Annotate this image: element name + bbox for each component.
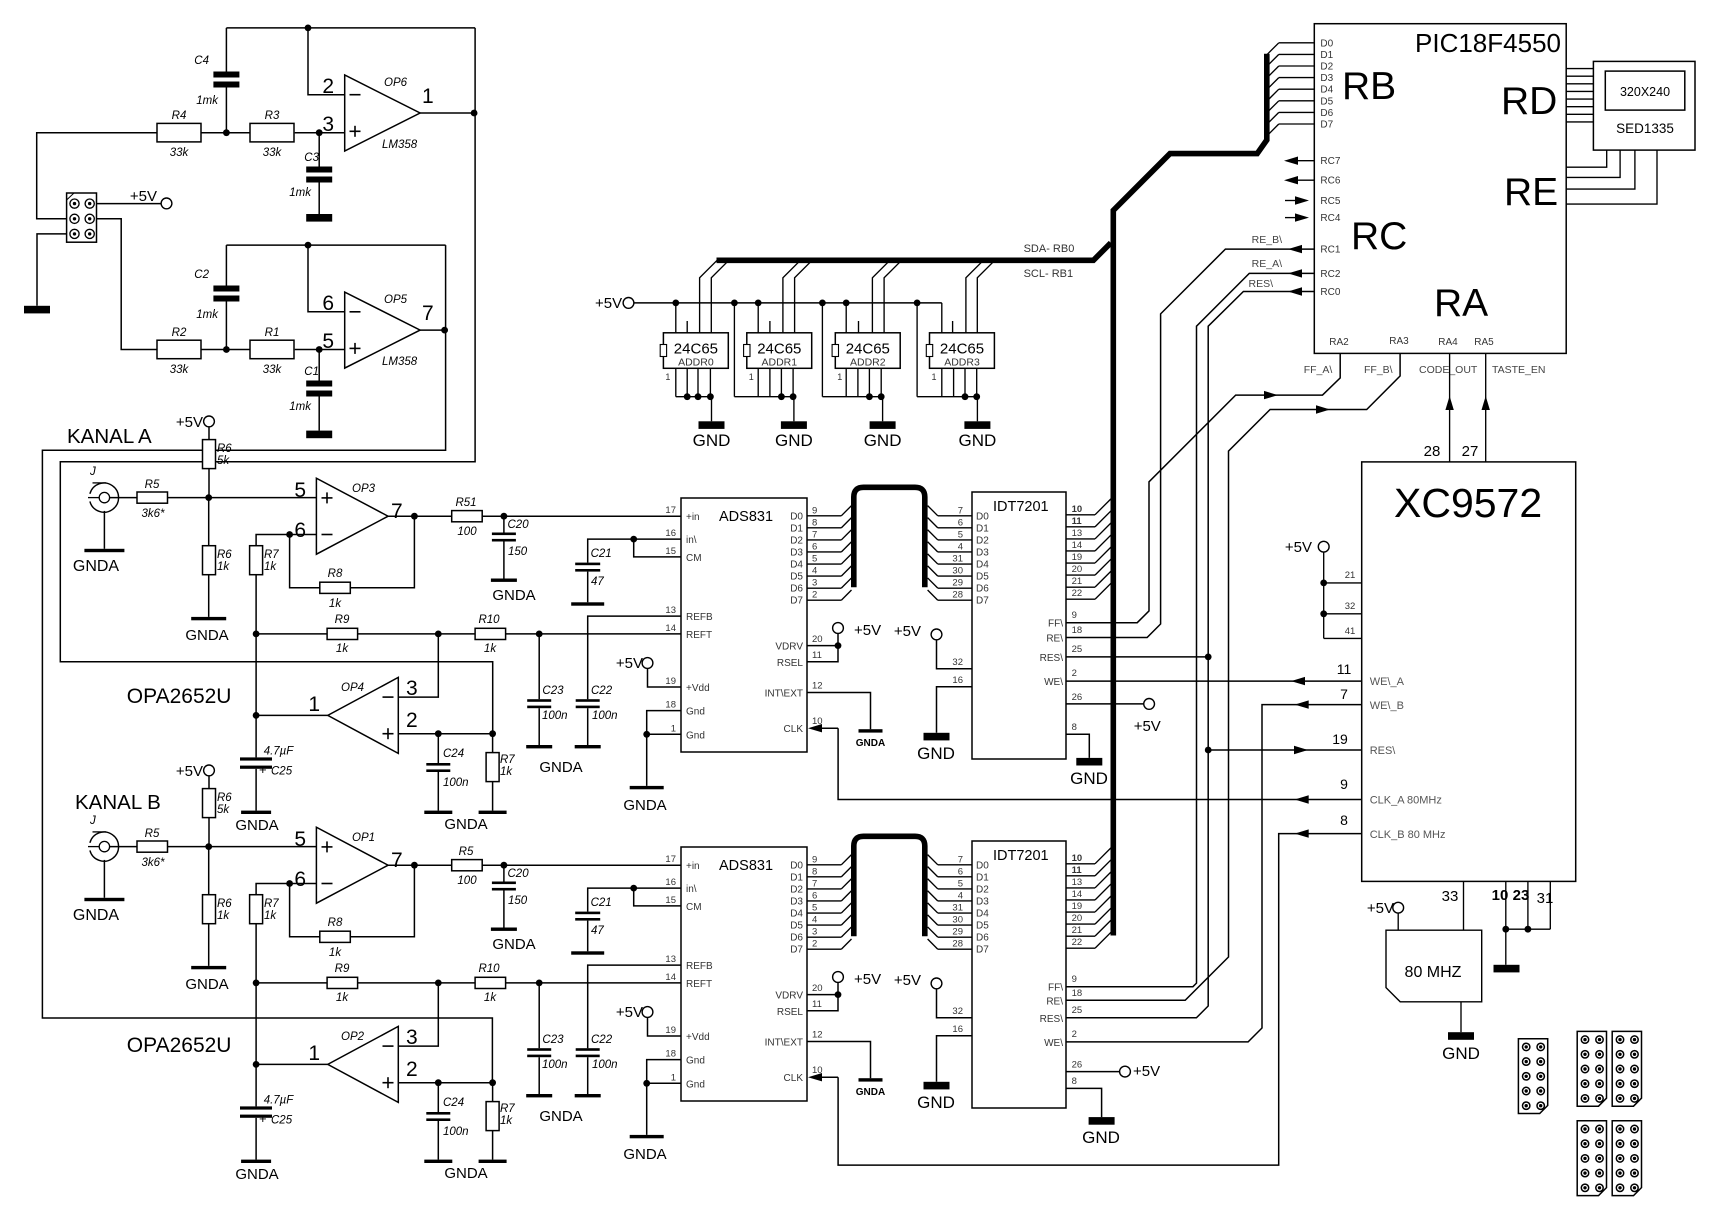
svg-text:47: 47 [591, 576, 604, 588]
wire C24 to ground (A) [437, 772, 439, 811]
svg-text:5: 5 [958, 529, 963, 540]
svg-text:1k: 1k [217, 561, 230, 573]
capacitor C25 4.7uF (A) [240, 757, 272, 760]
svg-text:R5: R5 [145, 828, 160, 840]
svg-text:GNDA: GNDA [185, 976, 228, 993]
svg-text:1mk: 1mk [196, 95, 219, 107]
svg-text:9: 9 [812, 854, 817, 865]
capacitor C20 (B) [492, 882, 516, 885]
resistor R9 (B) [327, 977, 358, 988]
svg-text:R5: R5 [459, 846, 474, 858]
wire C23 to ground (A) [538, 708, 540, 745]
svg-text:1k: 1k [500, 766, 513, 778]
svg-text:21: 21 [1072, 925, 1083, 936]
svg-text:1: 1 [308, 693, 320, 716]
junction RES at XC19 [1205, 747, 1212, 754]
svg-text:OPA2652U: OPA2652U [127, 1034, 232, 1057]
svg-text:25: 25 [1072, 644, 1083, 655]
wire C3 from node 3 [318, 133, 320, 167]
svg-text:+in: +in [686, 861, 700, 872]
svg-text:2: 2 [322, 75, 334, 98]
wire to C24 (A) [437, 734, 439, 763]
svg-text:R4: R4 [172, 110, 187, 122]
svg-text:4: 4 [958, 890, 963, 901]
wire IDT pin32 (B) [937, 989, 973, 1018]
resistor R5 3k6 (A) [137, 492, 168, 503]
svg-text:REFB: REFB [686, 961, 713, 972]
svg-text:GND: GND [959, 431, 997, 450]
svg-text:GNDA: GNDA [856, 738, 885, 749]
resistor R6 5k (A) [203, 440, 216, 469]
svg-text:+Vdd: +Vdd [686, 683, 710, 694]
wire node to R6 1k (B) [208, 847, 210, 895]
resistor R51 100 (A) [452, 511, 483, 522]
svg-text:+5V: +5V [616, 655, 643, 672]
svg-text:1k: 1k [500, 1115, 513, 1127]
wire R9/R10 reference rail (B) [256, 982, 681, 984]
wire header to R2 input [90, 219, 157, 350]
analog ground bar below C21 (B) [571, 951, 604, 954]
svg-text:+5V: +5V [1134, 718, 1161, 735]
svg-text:3k6*: 3k6* [141, 508, 165, 520]
power +5V top-left header [161, 198, 172, 209]
svg-text:IDT7201: IDT7201 [993, 848, 1049, 864]
svg-text:C23: C23 [542, 685, 564, 697]
power +5V for ADS +Vdd (A) [642, 658, 653, 669]
wire oscillator to GND [1460, 1002, 1462, 1032]
svg-text:GND: GND [1442, 1044, 1480, 1063]
ground bar below C1 [306, 431, 332, 439]
svg-text:C21: C21 [591, 897, 612, 909]
svg-text:D7: D7 [790, 596, 803, 607]
svg-text:D4: D4 [790, 909, 803, 920]
wire RES net: RC0 to FIFOs and XC [1066, 292, 1314, 1018]
svg-text:9: 9 [1340, 776, 1348, 792]
capacitor C25 4.7uF (B) [240, 1106, 272, 1109]
svg-text:33: 33 [1442, 888, 1459, 905]
svg-text:GNDA: GNDA [444, 816, 487, 833]
wire RA5 to XC pin 27 [1485, 353, 1487, 462]
wire C25 to ground (B) [255, 1118, 257, 1160]
svg-text:OPA2652U: OPA2652U [127, 685, 232, 708]
svg-text:10: 10 [812, 716, 823, 727]
svg-text:6: 6 [812, 890, 817, 901]
wire INT-EXT to GNDA (B) [807, 1042, 871, 1079]
resistor R5 100 (B) [452, 860, 483, 871]
wire C25 to ground (A) [255, 769, 257, 811]
svg-text:C22: C22 [591, 1034, 613, 1046]
svg-text:RD: RD [1501, 80, 1557, 123]
wire SDA of 24C65 #4 to bus [966, 260, 984, 333]
wires 24C65 #1 bottom pins [675, 368, 677, 396]
IC ADS831 (B) [681, 847, 807, 1101]
svg-text:OP3: OP3 [352, 483, 376, 495]
power +5V IDT-A pin 26 [1066, 703, 1144, 705]
svg-text:GNDA: GNDA [235, 817, 278, 834]
svg-text:1k: 1k [217, 910, 230, 922]
svg-text:5: 5 [294, 828, 306, 851]
svg-text:13: 13 [665, 954, 676, 965]
resistor R6 5k (B) [203, 789, 216, 818]
wire R51 to ADS +in (A) [482, 515, 681, 517]
wire BNC to R5 (B) [110, 846, 137, 848]
svg-text:CM: CM [686, 553, 702, 564]
analog ground bar below ADS (A) [630, 786, 664, 789]
svg-text:18: 18 [1072, 988, 1083, 999]
svg-text:GNDA: GNDA [539, 1108, 582, 1125]
wire ADS in-inv to C21 (B) [588, 888, 681, 912]
wire OP2 - input [398, 983, 438, 1046]
wire OP4 - input [398, 634, 438, 697]
ground bar below C3 [306, 214, 332, 222]
svg-text:8: 8 [812, 517, 817, 528]
wire +5V to R6 5k (B) [208, 776, 210, 789]
wire OP2 output node vertical [255, 983, 257, 1107]
wire RE_A net: IDT-B FF to PIC RC2 [1066, 273, 1314, 986]
svg-text:VDRV: VDRV [775, 642, 803, 653]
svg-text:R3: R3 [265, 110, 280, 122]
svg-text:2: 2 [406, 1058, 418, 1081]
wire CLK_A: ADS-A CLK to XC pin 9 [838, 728, 1362, 799]
analog ground bar below C22 (A) [575, 745, 601, 748]
data bus ADS to IDT (B) [854, 836, 925, 936]
stub pin on 24C65 #1 top [686, 321, 688, 333]
stub pin on 24C65 #4 top [952, 321, 954, 333]
svg-text:16: 16 [952, 675, 963, 686]
junction XC pin 23 gnd [1525, 926, 1532, 933]
svg-text:1k: 1k [329, 598, 342, 610]
wire C2 to top rail [225, 245, 227, 285]
IC ADS831 (A) [681, 498, 807, 752]
resistor R6 1k (A) [203, 546, 216, 575]
svg-text:RE: RE [1504, 171, 1558, 214]
svg-text:32: 32 [1345, 601, 1356, 612]
ground bar below header [24, 306, 50, 314]
wire R5 to op-amp + (A) [168, 497, 317, 499]
svg-text:27: 27 [1462, 443, 1479, 460]
wire +5V into 24C65 #4 [941, 303, 943, 333]
wire ADS Gnd pins to ground (B) [647, 1060, 681, 1135]
svg-text:CODE_OUT: CODE_OUT [1419, 364, 1478, 376]
wire R7 top to inverting node (B) [256, 884, 290, 895]
svg-text:INT\EXT: INT\EXT [765, 1038, 803, 1049]
svg-text:OP1: OP1 [352, 832, 375, 844]
svg-text:14: 14 [665, 623, 676, 634]
wire R5 to ADS +in (B) [482, 864, 681, 866]
capacitor C1 [306, 381, 332, 387]
svg-text:1k: 1k [264, 910, 277, 922]
resistor R7 1k (A) [250, 546, 263, 575]
capacitor C4 [213, 72, 239, 78]
svg-text:8: 8 [1072, 1076, 1077, 1087]
wire R6 1k to ground (B) [208, 924, 210, 966]
svg-text:6: 6 [322, 292, 334, 315]
wire SDA of 24C65 #3 to bus [872, 260, 890, 333]
svg-text:R8: R8 [328, 568, 343, 580]
svg-text:21: 21 [1072, 576, 1083, 587]
svg-text:6: 6 [958, 866, 963, 877]
capacitor C22 (B) [576, 1048, 600, 1051]
svg-text:150: 150 [508, 895, 528, 907]
svg-text:RES\: RES\ [1040, 1014, 1064, 1025]
resistor R9 (A) [327, 628, 358, 639]
svg-text:1: 1 [671, 1072, 676, 1083]
svg-text:4: 4 [812, 566, 817, 577]
svg-text:RC2: RC2 [1320, 269, 1340, 280]
svg-text:C4: C4 [194, 55, 209, 67]
power +5V for IDT pin32 (A) [931, 629, 942, 640]
connector header 2x5 #4 [1577, 1121, 1606, 1196]
resistor R10 (B) [475, 977, 506, 988]
wire RSEL (B) [807, 995, 838, 1011]
svg-text:REFT: REFT [686, 630, 712, 641]
junction OP6 output [471, 110, 478, 117]
connector header 2x5 #2 [1577, 1031, 1606, 1106]
capacitor C21 (A) [575, 563, 600, 566]
wire feedback left (B) [290, 884, 320, 937]
svg-text:18: 18 [665, 1049, 676, 1060]
svg-text:ADDR2: ADDR2 [850, 357, 886, 369]
svg-text:R10: R10 [478, 614, 500, 626]
svg-text:6: 6 [294, 868, 306, 891]
junction R4/R3/C4 node [223, 129, 230, 136]
resistor R4 [157, 123, 201, 141]
svg-text:D7: D7 [790, 945, 803, 956]
svg-text:GNDA: GNDA [444, 1165, 487, 1182]
svg-text:7: 7 [958, 505, 963, 516]
wire OP3 output [388, 515, 452, 517]
svg-text:3k6*: 3k6* [141, 857, 165, 869]
wire SCL of 24C65 #2 to bus [795, 260, 813, 333]
junction on OP6 top rail [305, 25, 312, 32]
wire OP4 output node vertical [255, 634, 257, 758]
capacitor C22 (A) [576, 699, 600, 702]
svg-text:RB: RB [1342, 65, 1396, 108]
wire CLK pin (B) [808, 1073, 822, 1081]
svg-text:D0: D0 [976, 860, 989, 871]
wire OP2 output [256, 1063, 328, 1065]
ground bar IDT pin16 (B) [924, 1082, 950, 1090]
ground bar oscillator [1448, 1032, 1474, 1040]
svg-text:6: 6 [958, 517, 963, 528]
junction R2/R1/C2 node [223, 346, 230, 353]
wire C3 to ground [318, 183, 320, 215]
svg-text:OP5: OP5 [384, 294, 408, 306]
wire 24C65 #1 to GND [711, 397, 713, 422]
svg-text:TASTE_EN: TASTE_EN [1492, 364, 1545, 376]
wire SCL of 24C65 #3 to bus [884, 260, 902, 333]
svg-text:+5V: +5V [1367, 900, 1394, 917]
svg-text:D5: D5 [1320, 96, 1333, 107]
svg-text:4: 4 [958, 541, 963, 552]
svg-text:J: J [89, 466, 96, 478]
junction XC pin 10 gnd [1502, 926, 1509, 933]
svg-text:15: 15 [665, 895, 676, 906]
analog ground bar below C21 (A) [571, 602, 604, 605]
svg-text:D1: D1 [1320, 50, 1333, 61]
svg-text:R6: R6 [217, 898, 232, 910]
wire OP6 top feedback rail [226, 27, 475, 29]
svg-text:D3: D3 [790, 547, 803, 558]
wire feedback left (A) [290, 535, 320, 588]
wire header pin to ground [37, 234, 75, 306]
IC IDT7201 (B) [972, 841, 1066, 1108]
svg-text:11: 11 [1337, 661, 1352, 677]
svg-text:J: J [89, 815, 96, 827]
capacitor C23 (A) [527, 699, 551, 702]
svg-text:14: 14 [1072, 540, 1083, 551]
svg-text:2: 2 [1072, 668, 1077, 679]
resistor R5 3k6 (B) [137, 841, 168, 852]
svg-text:+5V: +5V [130, 188, 157, 205]
wire R5 to op-amp + (B) [168, 846, 317, 848]
svg-text:R7: R7 [500, 754, 515, 766]
resistor R8 (A) [320, 582, 351, 593]
svg-text:R6: R6 [217, 792, 232, 804]
svg-text:RA5: RA5 [1474, 337, 1494, 348]
svg-text:7: 7 [422, 302, 434, 325]
analog ground bar below C23 (B) [526, 1094, 552, 1097]
svg-text:19: 19 [665, 676, 676, 687]
junction on OP5 top rail [305, 242, 312, 249]
svg-text:SCL- RB1: SCL- RB1 [1024, 268, 1074, 280]
svg-text:25: 25 [1072, 1005, 1083, 1016]
svg-text:24C65: 24C65 [757, 341, 801, 358]
svg-text:17: 17 [665, 505, 676, 516]
analog ground bar INT-EXT (B) [859, 1078, 883, 1081]
svg-text:41: 41 [1345, 626, 1356, 637]
connector header 2x5 #5 [1612, 1121, 1641, 1196]
svg-text:15: 15 [665, 546, 676, 557]
svg-text:ADDR3: ADDR3 [944, 357, 980, 369]
wires 24C65 #2 bottom pins [757, 368, 759, 396]
svg-text:GNDA: GNDA [73, 558, 120, 575]
svg-text:ADDR0: ADDR0 [678, 357, 714, 369]
svg-text:28: 28 [1424, 443, 1441, 460]
wire to C20 (B) [503, 865, 505, 881]
junction OP2 output [253, 1061, 260, 1068]
svg-text:+: + [259, 1111, 267, 1126]
power +5V XC left [1318, 541, 1329, 552]
svg-text:20: 20 [812, 634, 823, 645]
wires PIC RE to display [1566, 150, 1607, 167]
analog ground bar below R7b (B) [479, 1160, 507, 1163]
svg-text:ADS831: ADS831 [719, 509, 773, 525]
wire C4 to R4/R3 node [225, 88, 227, 133]
analog ground bar INT-EXT (A) [859, 729, 883, 732]
junction XC pin 21 [1320, 580, 1327, 587]
junction R3/C3 node 3 [316, 129, 323, 136]
svg-text:C23: C23 [542, 1034, 564, 1046]
wire +5V to oscillator [1397, 913, 1399, 930]
SDA/SCL bus (thick) [717, 243, 1111, 260]
svg-text:XC9572: XC9572 [1394, 480, 1542, 526]
wire REFB to C22 (B) [588, 965, 681, 1048]
svg-text:30: 30 [952, 566, 963, 577]
junction OP5 output [441, 327, 448, 334]
IC 24C65 #1 ADDR0 [663, 333, 728, 369]
svg-text:RE\: RE\ [1046, 996, 1063, 1007]
junction XC pin 32 [1320, 610, 1327, 617]
wire +5V to header pin [90, 203, 161, 205]
power +5V for VDRV (B) [833, 972, 844, 983]
wires IDT Q0-Q7 to main bus (A) [1066, 514, 1095, 516]
svg-text:R7: R7 [264, 898, 279, 910]
ground bar 24C65 #4 [964, 421, 990, 429]
wire R2 to R1 [201, 349, 250, 351]
svg-text:WE\: WE\ [1044, 677, 1063, 688]
svg-text:WE\_B: WE\_B [1370, 700, 1404, 712]
svg-text:320X240: 320X240 [1620, 85, 1670, 99]
svg-text:1: 1 [749, 372, 754, 382]
svg-text:10: 10 [1072, 853, 1083, 864]
capacitor C20 (A) [492, 533, 516, 536]
wire OP5 inverting input to top rail [308, 245, 345, 312]
power +5V IDT-B pin 26 [1066, 1071, 1120, 1073]
svg-text:GNDA: GNDA [73, 907, 120, 924]
svg-text:100n: 100n [592, 710, 618, 722]
svg-text:C22: C22 [591, 685, 613, 697]
analog ground bar below C22 (B) [575, 1094, 601, 1097]
svg-text:1mk: 1mk [289, 401, 312, 413]
svg-text:ADS831: ADS831 [719, 858, 773, 874]
svg-text:2: 2 [1072, 1029, 1077, 1040]
junction in-inv / CM (A) [630, 536, 637, 543]
svg-text:26: 26 [1072, 1060, 1083, 1071]
svg-text:D6: D6 [976, 933, 989, 944]
wire C2 to R2/R1 node [225, 302, 227, 350]
capacitor C23 (B) [527, 1048, 551, 1051]
wire OP6 loop: output down-left-down to OP4 + [60, 28, 492, 734]
wires ADS D0-D7 to bus (A) [807, 515, 841, 517]
svg-text:Gnd: Gnd [686, 1079, 705, 1090]
svg-text:4.7µF: 4.7µF [264, 1095, 295, 1107]
junction VDRV (A) [835, 642, 842, 649]
wire inverting node to op-amp - (A) [290, 534, 317, 536]
analog ground bar below C25 (A) [241, 811, 271, 814]
wire OP2 + input [398, 1082, 492, 1084]
svg-text:D0: D0 [976, 511, 989, 522]
svg-text:+5V: +5V [894, 623, 921, 640]
svg-text:3: 3 [812, 927, 817, 938]
IC 24C65 #3 ADDR2 [835, 333, 900, 369]
svg-text:7: 7 [391, 500, 403, 523]
wire R4 to R3 [201, 132, 250, 134]
svg-text:100n: 100n [542, 710, 568, 722]
svg-text:D1: D1 [790, 872, 803, 883]
svg-text:RA2: RA2 [1329, 337, 1349, 348]
wire C20 to ground (A) [503, 542, 505, 579]
svg-text:R5: R5 [145, 479, 160, 491]
wire to C23 (B) [538, 983, 540, 1048]
wire XC pin 33 to oscillator [1463, 881, 1465, 930]
svg-text:30: 30 [952, 915, 963, 926]
resistor R6 1k (B) [203, 895, 216, 924]
svg-text:3: 3 [812, 578, 817, 589]
resistor R7 1k lower (A) [486, 753, 499, 782]
wire BNC to R5 (A) [110, 497, 137, 499]
junction VDRV (B) [835, 991, 842, 998]
wires 24C65 #4 bottom pins [941, 368, 943, 396]
wire +5V into 24C65 #2 [757, 303, 759, 333]
wire OP4 + input [398, 733, 492, 735]
wire OP5 output [420, 329, 446, 331]
svg-text:C20: C20 [508, 519, 530, 531]
svg-text:11: 11 [1072, 865, 1083, 876]
svg-text:ADDR1: ADDR1 [762, 357, 798, 369]
op-amp OP5 [345, 292, 420, 368]
svg-text:R8: R8 [328, 917, 343, 929]
